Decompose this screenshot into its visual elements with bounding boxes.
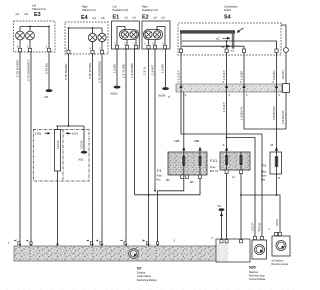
svg-text:e2: e2 xyxy=(93,16,97,20)
ground W10/6 behind strip xyxy=(159,49,169,98)
svg-text:2.5 RD/YL: 2.5 RD/YL xyxy=(272,105,276,120)
svg-text:Switch: Switch xyxy=(224,9,232,12)
svg-text:1.5 YL: 1.5 YL xyxy=(143,66,147,75)
svg-text:E2: E2 xyxy=(142,15,149,21)
svg-text:w/ Daytime: w/ Daytime xyxy=(272,259,284,262)
wire E3 internal bus xyxy=(20,26,49,28)
wire S4 58d through strip to fuse F1/1 xyxy=(226,52,228,152)
wire E1 e1 to module xyxy=(134,49,136,195)
wire E2 e2 to module xyxy=(148,49,150,195)
svg-text:11/93: 11/93 xyxy=(72,133,78,136)
wire strip to fuse F3 xyxy=(183,92,185,152)
svg-text:30 RD: 30 RD xyxy=(276,219,279,226)
svg-text:Taillamp Unit: Taillamp Unit xyxy=(32,8,46,11)
svg-text:0.75 GY/BK: 0.75 GY/BK xyxy=(88,62,92,79)
svg-text:Box 7/3: Box 7/3 xyxy=(210,170,219,173)
wire E3 e2 to module xyxy=(19,52,21,246)
svg-text:198: 198 xyxy=(174,139,179,143)
svg-text:1.5 GY: 1.5 GY xyxy=(222,70,226,80)
node junction drop to module xyxy=(148,194,150,196)
wire F2 output xyxy=(276,174,278,195)
svg-text:s2: s2 xyxy=(216,37,220,41)
node E4 bus junctions xyxy=(92,27,94,29)
connector sub-box on N7 right xyxy=(212,237,251,262)
svg-text:Headlamp Unit: Headlamp Unit xyxy=(113,9,129,12)
S4 contact band xyxy=(180,30,235,33)
lamp E2 bulb2 xyxy=(153,31,160,38)
lamp E3 right bulb xyxy=(26,27,35,49)
lamp E1 bulb2 xyxy=(130,31,137,38)
wire variant ground branch xyxy=(83,126,85,151)
wire E4 internal bus xyxy=(69,27,103,29)
svg-text:e6: e6 xyxy=(101,16,105,20)
svg-text:Control Module: Control Module xyxy=(249,278,266,281)
wire F3 left output to module N7 xyxy=(158,178,184,246)
pin e6 terminal E3 xyxy=(28,48,31,51)
pin terminals E1 xyxy=(115,45,118,48)
pin terminals F1/1 xyxy=(225,170,228,173)
fuse f2 in F3 xyxy=(198,147,202,175)
fuse f5 in F1/1 xyxy=(225,152,229,170)
wire junction to relay K xyxy=(241,195,280,232)
wire E2 internal right xyxy=(157,27,165,46)
wire F1/1 left output to module xyxy=(226,173,228,239)
svg-text:1.5 BK: 1.5 BK xyxy=(240,70,244,80)
node E3 bus junctions xyxy=(29,26,31,28)
wire S4 through strip to feed elbow xyxy=(244,52,286,129)
svg-text:e6: e6 xyxy=(25,12,29,16)
svg-text:1.5 BK: 1.5 BK xyxy=(113,63,117,73)
svg-text:E4: E4 xyxy=(81,15,88,21)
ground W6 xyxy=(45,52,53,99)
wire variant bracket xyxy=(56,125,84,127)
wire variant left loop xyxy=(57,126,59,130)
taillamp unit E3 xyxy=(14,5,56,52)
pin ground terminal E3 xyxy=(47,48,50,51)
svg-text:0.75 GY/RD: 0.75 GY/RD xyxy=(16,60,20,77)
pin left terminal E4 xyxy=(67,50,70,53)
wire E3 ground lead xyxy=(48,27,50,49)
svg-text:Headlamp Unit: Headlamp Unit xyxy=(142,9,158,12)
wire S4 s-left through strip to N35 feed xyxy=(181,52,262,236)
pin connector marks above module bar xyxy=(18,242,149,245)
pin numbers at connector strip xyxy=(178,81,281,97)
wire F3 right output joins E1 e1 column xyxy=(135,178,201,194)
ground W11 xyxy=(81,151,87,154)
svg-text:e1: e1 xyxy=(162,15,166,19)
connector screw symbol on N7 xyxy=(129,249,139,259)
pin numbers inside unit boxes xyxy=(17,43,164,51)
svg-text:258: 258 xyxy=(194,139,199,143)
wire E2 internal left xyxy=(148,40,150,46)
wire S4 second leg xyxy=(226,41,228,49)
node junction fuse to DRL relay xyxy=(240,194,242,196)
svg-text:e2: e2 xyxy=(154,15,158,19)
svg-text:s1: s1 xyxy=(222,45,226,49)
svg-text:1.5 GY: 1.5 GY xyxy=(177,70,181,80)
fuse f6 in F1/1 xyxy=(239,152,243,170)
svg-text:Taillamp Unit: Taillamp Unit xyxy=(82,9,96,12)
S4 wiper stem xyxy=(232,34,235,49)
svg-text:W11: W11 xyxy=(79,159,84,162)
svg-text:N7: N7 xyxy=(137,266,142,270)
node entry arrows on N7 xyxy=(19,244,150,247)
lamp E2 bulb1 xyxy=(145,31,152,38)
svg-text:1.5 WT/BK: 1.5 WT/BK xyxy=(130,62,134,78)
fuse box F3 xyxy=(157,139,208,181)
svg-text:Fuse: Fuse xyxy=(210,166,216,169)
svg-text:1.5 YL/BK: 1.5 YL/BK xyxy=(122,63,126,78)
connector strip X1 (hatched bar upper right) xyxy=(176,84,282,92)
wire drop to module N7 xyxy=(148,195,150,246)
wire junction to N35 left pin xyxy=(227,138,255,236)
svg-text:s3: s3 xyxy=(231,48,235,52)
svg-text:S4: S4 xyxy=(224,15,231,21)
svg-text:0.75 BK: 0.75 BK xyxy=(57,140,60,149)
svg-text:Running Lamp: Running Lamp xyxy=(249,274,265,277)
pin terminals relay K xyxy=(275,232,278,235)
fuse box F1/1 xyxy=(210,152,250,173)
pin e6 terminal E4 xyxy=(100,50,103,53)
svg-text:Fuse: Fuse xyxy=(261,174,267,177)
svg-text:F1/1: F1/1 xyxy=(210,159,217,163)
svg-text:0.75 BK/RD/GY: 0.75 BK/RD/GY xyxy=(27,59,31,81)
headlamp unit E1 xyxy=(112,6,140,49)
svg-text:1.5 BK/YL: 1.5 BK/YL xyxy=(240,106,244,120)
svg-text:1.5 WT: 1.5 WT xyxy=(151,65,155,75)
wire S4 left leg xyxy=(180,34,182,49)
svg-text:0.75 BK/RD: 0.75 BK/RD xyxy=(64,63,68,80)
svg-text:Fuse: Fuse xyxy=(157,175,163,178)
lamp E4 right bulb xyxy=(98,28,106,50)
svg-text:E3: E3 xyxy=(34,12,41,18)
wire E1 internal left xyxy=(117,27,125,46)
fuse f in F2 xyxy=(275,152,279,174)
svg-text:12/93: 12/93 xyxy=(35,133,42,136)
wire E1 e2 to module xyxy=(125,49,127,246)
control module N35 daytime running lamp xyxy=(249,240,267,281)
wire variant continues to module xyxy=(57,171,59,246)
svg-text:R: R xyxy=(278,177,280,180)
svg-text:F2: F2 xyxy=(262,164,266,168)
wire E4 e6 to module xyxy=(101,54,103,246)
fuse box F2 xyxy=(261,152,282,181)
wire E4 left feed lead xyxy=(68,28,70,50)
lamp E1 oval housing xyxy=(120,30,139,40)
svg-text:30 RD: 30 RD xyxy=(281,69,285,79)
svg-text:0.75 BK/RD/WT: 0.75 BK/RD/WT xyxy=(98,61,102,83)
pin terminals E2 xyxy=(147,45,150,48)
svg-text:193: 193 xyxy=(166,179,171,182)
svg-text:Running Lamps: Running Lamps xyxy=(272,263,290,266)
battery feed wire far right xyxy=(281,25,289,129)
svg-text:e2: e2 xyxy=(125,15,129,19)
svg-text:E1: E1 xyxy=(113,15,120,21)
svg-text:0.75 GY: 0.75 GY xyxy=(252,222,255,231)
svg-text:199: 199 xyxy=(190,181,195,184)
svg-text:2.5 RD/YL: 2.5 RD/YL xyxy=(281,109,285,124)
svg-text:2.5 RD: 2.5 RD xyxy=(272,70,276,80)
headlamp unit E2 xyxy=(142,6,170,49)
wire S4 contact row s2 xyxy=(223,37,228,39)
wire E1 internal right xyxy=(135,40,137,46)
wire E4 feed drop xyxy=(68,54,70,126)
combination switch S4 xyxy=(178,6,281,55)
svg-text:1.5 BK: 1.5 BK xyxy=(161,63,165,73)
ground W1 xyxy=(218,205,225,239)
svg-text:M: M xyxy=(271,143,274,147)
svg-text:W10/6: W10/6 xyxy=(159,95,167,98)
svg-text:1.5 GY: 1.5 GY xyxy=(222,102,226,112)
wire S4 contact row mid xyxy=(182,41,277,49)
svg-text:Monitoring Module: Monitoring Module xyxy=(137,279,157,282)
wire E2 internal mid xyxy=(154,40,156,46)
svg-text:N35: N35 xyxy=(249,265,256,269)
pin S4 terminals xyxy=(179,49,182,52)
fuse f1 in F3 xyxy=(182,152,186,175)
pin e2 terminal E3 xyxy=(18,48,21,51)
production variant box 12/93 11/93 xyxy=(34,130,90,182)
svg-text:Daytime: Daytime xyxy=(249,271,258,274)
taillamp unit E4 xyxy=(65,6,108,54)
pin numbers above N7 xyxy=(8,240,176,245)
svg-text:F3: F3 xyxy=(157,169,161,173)
svg-text:0.75 BK: 0.75 BK xyxy=(45,62,49,74)
pin terminals F3 xyxy=(181,175,184,178)
ground W10/3 xyxy=(111,49,121,96)
wire F1/1 right output to module xyxy=(240,173,242,239)
node junction to N35 branch xyxy=(226,137,228,139)
wire S4 contact row s3 xyxy=(182,46,244,49)
svg-text:e1: e1 xyxy=(133,15,137,19)
module N7 lamp failure monitor bar xyxy=(14,246,250,282)
wire E1 internal mid xyxy=(126,40,128,46)
wire E3 e6 to module xyxy=(30,52,32,246)
lamp E2 oval housing xyxy=(144,30,163,40)
S4 wiper arrow xyxy=(238,28,244,32)
pin terminals N35 xyxy=(254,236,257,239)
pin e2 terminal E4 xyxy=(91,50,94,53)
svg-text:Lamp Failure: Lamp Failure xyxy=(137,275,152,278)
svg-text:0.75 BK: 0.75 BK xyxy=(81,140,84,149)
svg-text:Main: Main xyxy=(261,170,267,173)
lamp E1 bulb1 xyxy=(121,31,128,38)
svg-text:W10/3: W10/3 xyxy=(111,93,119,96)
wire E2 e1 to module xyxy=(154,49,156,191)
lamp E4 left bulb xyxy=(88,28,96,50)
svg-text:e2: e2 xyxy=(16,12,20,16)
relay module K DRL xyxy=(272,236,291,266)
lamp E3 left bulb xyxy=(16,27,25,49)
wire S4 30 through strip to fuse F2 xyxy=(276,52,278,152)
svg-text:Exterior: Exterior xyxy=(137,272,145,275)
wire E4 e2 to module xyxy=(92,54,94,246)
